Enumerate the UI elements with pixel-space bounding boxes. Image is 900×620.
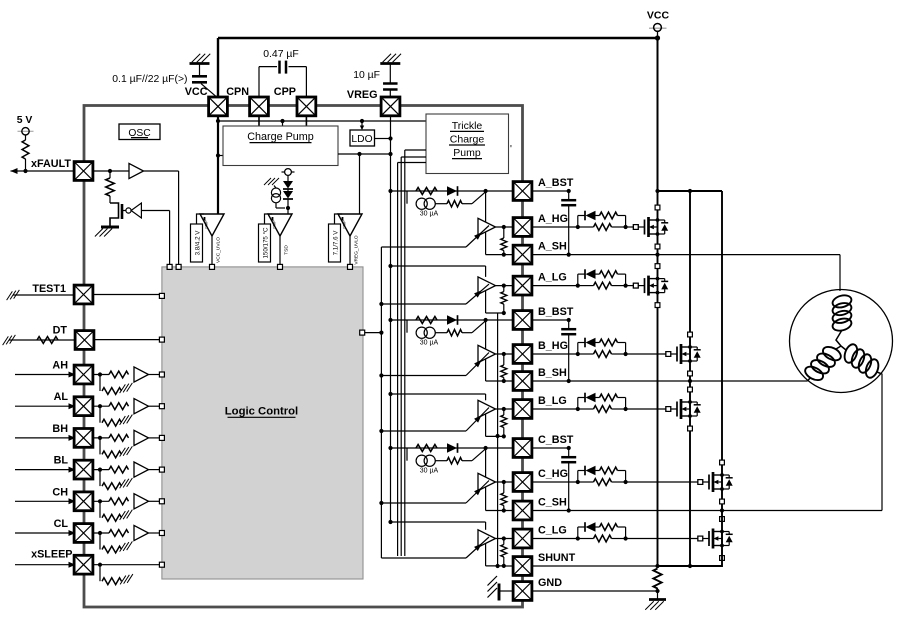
svg-text:30 µA: 30 µA <box>420 211 439 218</box>
svg-text:150/175 °C: 150/175 °C <box>262 227 269 259</box>
svg-text:CMP: CMP <box>205 220 209 229</box>
svg-text:TEST1: TEST1 <box>32 283 66 295</box>
svg-text:SHUNT: SHUNT <box>538 552 576 564</box>
svg-text:30 µA: 30 µA <box>420 340 439 347</box>
svg-text:C_HG: C_HG <box>538 468 568 480</box>
svg-text:10 µF: 10 µF <box>353 70 380 81</box>
svg-text:C_SH: C_SH <box>538 497 567 509</box>
svg-text:CPP: CPP <box>274 86 296 98</box>
svg-text:VREG: VREG <box>347 89 378 101</box>
svg-text:': ' <box>510 144 512 155</box>
svg-text:VCC: VCC <box>185 86 208 98</box>
svg-text:BL: BL <box>54 455 69 467</box>
svg-text:VCC_UVLO: VCC_UVLO <box>216 237 222 263</box>
svg-text:C_LG: C_LG <box>538 525 567 537</box>
svg-text:7.1/7.6 V: 7.1/7.6 V <box>332 230 339 256</box>
svg-text:A_BST: A_BST <box>538 177 574 189</box>
svg-text:xFAULT: xFAULT <box>31 158 71 170</box>
svg-text:A_LG: A_LG <box>538 272 567 284</box>
svg-text:CPN: CPN <box>226 86 249 98</box>
svg-text:TSD: TSD <box>284 245 290 255</box>
svg-text:0.1 µF//22 µF(>): 0.1 µF//22 µF(>) <box>112 74 187 85</box>
svg-text:30 µA: 30 µA <box>420 468 439 475</box>
svg-text:C_BST: C_BST <box>538 434 574 446</box>
svg-text:VCC: VCC <box>647 10 670 22</box>
svg-text:5 V: 5 V <box>17 115 33 126</box>
svg-text:AL: AL <box>54 391 69 403</box>
svg-text:B_LG: B_LG <box>538 395 567 407</box>
svg-text:CL: CL <box>54 518 69 530</box>
svg-text:DT: DT <box>53 325 68 337</box>
svg-text:Logic Control: Logic Control <box>225 406 298 418</box>
svg-text:3.8/4.2 V: 3.8/4.2 V <box>194 230 201 256</box>
svg-text:B_SH: B_SH <box>538 367 567 379</box>
svg-text:Charge: Charge <box>450 134 485 146</box>
svg-text:B_HG: B_HG <box>538 340 568 352</box>
svg-text:GND: GND <box>538 577 562 589</box>
svg-text:Charge Pump: Charge Pump <box>247 131 314 143</box>
svg-text:BH: BH <box>52 423 68 435</box>
svg-text:B_BST: B_BST <box>538 306 574 318</box>
svg-text:CMP: CMP <box>343 220 347 229</box>
svg-text:xSLEEP: xSLEEP <box>31 549 72 561</box>
svg-text:0.47 µF: 0.47 µF <box>263 49 298 60</box>
svg-text:CMP: CMP <box>273 220 277 229</box>
svg-text:AH: AH <box>52 360 68 372</box>
svg-text:Trickle: Trickle <box>452 120 483 132</box>
svg-text:VREG_UVLO: VREG_UVLO <box>354 235 360 265</box>
svg-text:LDO: LDO <box>351 134 372 145</box>
svg-text:CH: CH <box>52 486 68 498</box>
svg-text:A_HG: A_HG <box>538 213 568 225</box>
svg-text:A_SH: A_SH <box>538 241 567 253</box>
svg-text:Pump: Pump <box>453 147 481 159</box>
